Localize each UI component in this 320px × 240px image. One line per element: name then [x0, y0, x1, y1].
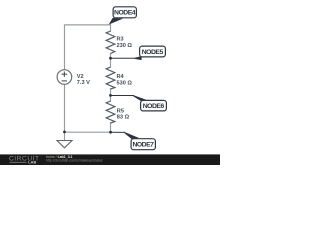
svg-text:230 Ω: 230 Ω — [117, 43, 133, 49]
svg-text:NODE6: NODE6 — [143, 103, 165, 110]
svg-text:http://circuitlab.com/c/makeup: http://circuitlab.com/c/makeup/status — [46, 159, 103, 163]
svg-text:R4: R4 — [117, 74, 125, 80]
svg-text:R5: R5 — [117, 108, 124, 114]
svg-text:7.3 V: 7.3 V — [77, 80, 90, 86]
svg-text:83 Ω: 83 Ω — [117, 115, 130, 121]
svg-text:R3: R3 — [117, 36, 124, 42]
svg-text:NODE4: NODE4 — [114, 10, 136, 17]
svg-text:LAB: LAB — [28, 160, 36, 165]
svg-text:530 Ω: 530 Ω — [117, 81, 133, 87]
svg-text:NODE7: NODE7 — [132, 142, 154, 149]
svg-text:V2: V2 — [77, 74, 84, 80]
svg-text:NODE5: NODE5 — [142, 49, 164, 56]
